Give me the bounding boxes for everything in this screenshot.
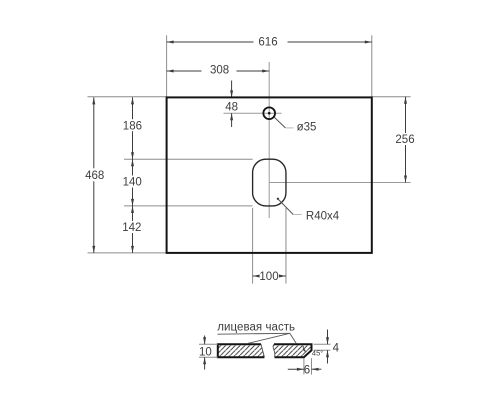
countertop outline 616x468 bbox=[167, 97, 372, 253]
svg-text:лицевая часть: лицевая часть bbox=[217, 321, 295, 333]
label litsevaya chast bbox=[217, 321, 295, 333]
dimension 10 thickness bbox=[199, 336, 212, 370]
extension lines for 4 chamfer height bbox=[314, 344, 331, 350]
extension line cutout top leftwards (186/140 boundary) bbox=[124, 158, 253, 160]
extension line cutout left side down (for 100) bbox=[252, 208, 254, 284]
svg-text:48: 48 bbox=[225, 102, 238, 114]
horizontal centerline of cutout extending to 256 dimension bbox=[269, 182, 410, 184]
svg-text:100: 100 bbox=[259, 271, 278, 283]
sink cutout R40x4 bbox=[253, 159, 286, 206]
svg-text:142: 142 bbox=[122, 222, 141, 234]
svg-text:616: 616 bbox=[258, 36, 277, 48]
45 degree arc with arrowhead bbox=[303, 346, 306, 352]
dimension 100 cutout width bbox=[253, 271, 286, 283]
label 45 deg bbox=[312, 348, 323, 357]
dimension 308 hole from left edge bbox=[167, 64, 270, 77]
svg-text:468: 468 bbox=[85, 170, 104, 182]
horizontal centerline of faucet hole bbox=[224, 112, 282, 114]
svg-text:256: 256 bbox=[395, 134, 414, 146]
svg-text:R40x4: R40x4 bbox=[306, 210, 340, 222]
extension line cutout right side down (for 100) bbox=[285, 208, 287, 284]
extension line top-right corner up (for 616) bbox=[371, 35, 373, 97]
svg-text:140: 140 bbox=[123, 177, 142, 189]
extension lines for 10 thickness bbox=[199, 344, 218, 357]
faucet hole ø35 bbox=[263, 107, 275, 119]
extension lines for 6 chamfer width bbox=[304, 358, 312, 374]
dimension 468 overall height bbox=[85, 97, 106, 253]
svg-text:ø35: ø35 bbox=[297, 122, 317, 134]
svg-text:10: 10 bbox=[199, 347, 212, 359]
svg-text:308: 308 bbox=[210, 65, 229, 77]
leader line R40x4 label with point bbox=[277, 198, 302, 215]
extension line top edge leftwards (for 468/186) bbox=[88, 96, 167, 98]
svg-text:186: 186 bbox=[123, 120, 142, 132]
label ø35 bbox=[297, 122, 317, 134]
dimension 48 hole from top edge bbox=[225, 81, 238, 128]
svg-text:6: 6 bbox=[304, 364, 310, 376]
section bar left segment (hatched) bbox=[218, 344, 265, 357]
svg-text:4: 4 bbox=[333, 342, 340, 354]
dimension 6 chamfer width bbox=[288, 364, 322, 376]
svg-text:45°: 45° bbox=[312, 348, 323, 357]
extension line cutout bottom leftwards (140/142 boundary) bbox=[124, 205, 253, 207]
label R40x4 bbox=[306, 210, 340, 222]
extension line top edge rightwards (for 256) bbox=[372, 96, 411, 98]
extension line top-left corner up (for 616/308) bbox=[166, 35, 168, 97]
dimension 256 cutout center from top bbox=[395, 97, 415, 183]
leader line ø35 label bbox=[274, 117, 293, 128]
dimension 4 chamfer height bbox=[326, 330, 340, 364]
dimension 616 top width bbox=[167, 36, 372, 49]
dimension chain 186 / 140 / 142 bbox=[122, 97, 142, 253]
vertical centerline through hole and cutout bbox=[268, 62, 270, 218]
extension line bottom edge leftwards (for 468/142) bbox=[88, 252, 167, 254]
section bar right segment with 45 deg chamfer (hatched) bbox=[273, 344, 311, 357]
leader lines from label to bar face bbox=[217, 333, 296, 343]
